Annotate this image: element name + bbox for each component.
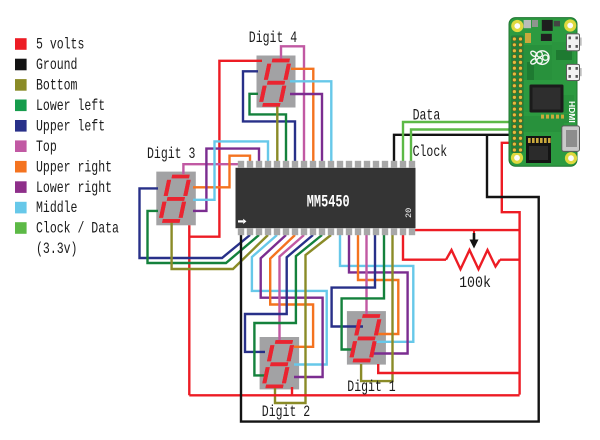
svg-text:100k: 100k: [459, 275, 491, 292]
pin 1 number label: [238, 219, 246, 224]
7-segment display Digit 4: [257, 56, 296, 108]
svg-text:Digit 3: Digit 3: [147, 145, 195, 163]
wire Digit2 middle (cyan) to U1 bottom pin 5: [252, 235, 327, 365]
wire Digit1 5V stub to red net: [378, 364, 519, 373]
Pi Zero mounting holes: [511, 19, 577, 164]
wire Digit2 top (pink) to U1 bottom pin 8: [280, 235, 305, 340]
wire Digit2 lower-left (green) to U1 bottom pin 10: [254, 235, 322, 375]
wire Digit4 bottom (olive) to U1 top pin 5: [276, 104, 278, 164]
potentiometer wiper arrow: [470, 231, 479, 249]
svg-text:20: 20: [404, 208, 414, 218]
svg-text:Top: Top: [36, 138, 57, 156]
7-segment display Digit 2 segments overlay: [261, 340, 295, 388]
svg-text:Data: Data: [413, 107, 441, 125]
7-segment display Digit 4 segments overlay: [258, 59, 292, 107]
node label Digit 2: [262, 403, 310, 421]
Pi Zero raspberry logo: [530, 50, 549, 65]
svg-text:Upper right: Upper right: [36, 159, 112, 177]
wire Digit4 lower-left (green) to U1 top pin 6: [250, 94, 287, 164]
wire U1 pin20 to potentiometer wiper rail: [414, 229, 520, 231]
wire Digit4 lower-right (purple) to U1 top pin 10: [290, 94, 322, 164]
Pi Zero micro-USB port 2: [580, 68, 582, 76]
Pi Zero micro-USB port 1: [580, 38, 582, 46]
wire GND from Pi Zero to U1 top pin 18: [394, 135, 514, 164]
node label Digit 1: [347, 378, 395, 396]
7-segment display Digit 3 segments overlay: [158, 175, 192, 223]
Pi Zero GPIO header (2x20): [511, 35, 524, 153]
legend: wire colour key: [15, 38, 27, 50]
wire Digit2 bottom (olive) to U1 bottom pin 11: [275, 235, 331, 403]
wire Digit3 top (pink) to U1 top pin 1 (wraps left): [183, 164, 239, 174]
7-segment display Digit 3: [156, 172, 196, 226]
wire Digit2 upper-right (orange) to U1 bottom pin 7: [270, 235, 313, 347]
MM5450 part label: [307, 194, 350, 213]
wire Digit3 upper-right (orange) to U1 top pin 2: [193, 156, 250, 188]
Pi Zero SD card slot: [526, 136, 551, 163]
svg-text:Ground: Ground: [36, 56, 77, 74]
wire Digit1 bottom (olive) to U1 bottom pin 18: [361, 235, 392, 381]
wire Digit4 upper-right (orange) to U1 top pin 9: [291, 69, 313, 164]
wire red 5V bus riser Digit3/Digit4: [188, 225, 190, 395]
svg-text:Digit 2: Digit 2: [262, 403, 310, 421]
wire Digit1 upper-right (orange) to U1 bottom pin 14: [358, 235, 398, 334]
wire Digit1 middle (cyan) to U1 bottom pin 12: [340, 235, 413, 342]
IC U1 MM5450 body: [236, 168, 416, 228]
wire Digit1 lower-left (green) to U1 bottom pin 17: [342, 235, 384, 350]
wire 5V from Pi Zero GPIO down the right side: [502, 143, 520, 395]
wire Digit1 upper-left (navy) to U1 bottom pin 16: [332, 235, 375, 327]
wire Digit3 lower-left (green) to U1 bottom pin 3: [148, 211, 260, 263]
svg-text:Middle: Middle: [36, 200, 77, 218]
Pi Zero mini-HDMI port: [562, 126, 580, 151]
svg-text:Digit 1: Digit 1: [347, 378, 395, 396]
net label Data: [413, 107, 441, 125]
net label Clock: [413, 143, 448, 161]
svg-text:(3.3v): (3.3v): [36, 240, 77, 258]
svg-text:Digit 4: Digit 4: [249, 29, 297, 47]
wire Data (3.3v) from Pi to U1 top pin 19: [403, 122, 514, 164]
wire Digit1 lower-right (purple) to U1 bottom pin 13: [349, 235, 408, 354]
wire Digit2 lower-right (purple) to U1 bottom pin 6: [261, 235, 323, 377]
wire Digit2 upper-left (navy) to U1 bottom pin 9: [245, 235, 313, 352]
Pi Zero caps under SoC: [541, 115, 564, 119]
svg-text:Clock: Clock: [413, 143, 448, 161]
7-segment display Digit 1: [347, 311, 386, 365]
7-segment display Digit 2: [260, 337, 300, 389]
7-segment display Digit 1 segments overlay: [349, 314, 383, 362]
wire Digit3 middle (cyan) to U1 top pin 4: [193, 141, 268, 199]
wire U1 pin19 to potentiometer left terminal: [403, 234, 446, 260]
wire Clock (3.3v) from Pi to U1 top pin 20: [411, 130, 514, 165]
svg-text:Lower left: Lower left: [36, 97, 105, 115]
svg-text:HDMI: HDMI: [567, 101, 577, 123]
wire Digit3 lower-right (purple) to U1 top pin 3: [193, 149, 259, 211]
wire Digit2 5V stub to red rail: [291, 387, 293, 395]
resistor value label 100k: [459, 275, 491, 292]
MM5450 bottom pin row (pins 1..20): [238, 228, 415, 235]
wire potentiometer right terminal to 5V riser: [500, 259, 520, 261]
wire Digit4 middle (cyan) to U1 top pin 11: [290, 81, 331, 164]
wire Digit3 upper-left (navy) to U1 bottom pin 2: [140, 188, 251, 258]
resistor R1 100k (potentiometer element): [446, 250, 500, 269]
svg-text:5 volts: 5 volts: [36, 36, 84, 54]
node label Digit 4: [249, 29, 297, 47]
wire 5V bottom rail: [189, 394, 519, 396]
wire Digit4 top (pink) to U1 top pin 8: [281, 46, 304, 164]
Pi Zero pcb texture: [524, 42, 574, 132]
svg-text:Clock / Data: Clock / Data: [36, 220, 119, 238]
svg-text:MM5450: MM5450: [307, 194, 350, 213]
Raspberry Pi Zero board: [509, 18, 577, 167]
svg-text:Bottom: Bottom: [36, 77, 77, 95]
svg-text:Upper left: Upper left: [36, 118, 105, 136]
wire Digit4 upper-left (navy) to U1 top pin 7: [243, 71, 295, 164]
wire Digit1 top (pink) to U1 bottom pin 15: [365, 235, 367, 314]
node label Digit 3: [147, 145, 195, 163]
MM5450 top pin row (pins 40..21): [238, 161, 415, 168]
Pi Zero SoC (Broadcom): [530, 85, 564, 113]
svg-text:Lower right: Lower right: [36, 179, 112, 197]
wire 5V red to Digit 4 (from red bus riser): [189, 61, 262, 237]
Pi Zero top components: [524, 20, 560, 43]
wire Digit3 bottom (olive) to U1 bottom pin 4: [172, 222, 268, 269]
wire GND branch down right side and around bottom to U1 pin 1: [241, 135, 539, 422]
